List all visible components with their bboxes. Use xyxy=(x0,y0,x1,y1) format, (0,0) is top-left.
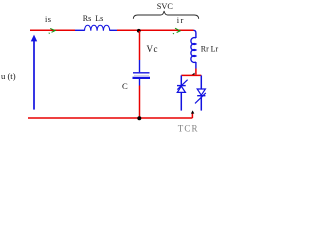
node junction top capacitor xyxy=(137,29,141,33)
thyristor T1 gate xyxy=(177,80,187,90)
wire inductor left lead xyxy=(75,29,85,31)
wire thyristor left top xyxy=(180,75,182,85)
svg-text:RsLs: RsLs xyxy=(83,14,104,23)
capacitor C top plate xyxy=(133,72,150,74)
source arrow u(t) head xyxy=(31,35,37,42)
wire bottom horizontal xyxy=(28,117,192,119)
svg-text:Vc: Vc xyxy=(147,44,159,54)
wire capacitor upper xyxy=(139,31,141,60)
current arrow is xyxy=(50,28,55,32)
svg-text:ir: ir xyxy=(177,15,185,25)
thyristor T2 anode bar xyxy=(197,95,205,97)
wire down to TCR xyxy=(195,69,197,75)
wire thyristor right bottom xyxy=(200,96,202,111)
wire top right corner down xyxy=(194,30,196,38)
thyristor T2 gate xyxy=(195,93,206,104)
wire capacitor lower xyxy=(139,86,141,119)
svg-text:RrLr: RrLr xyxy=(201,44,219,53)
inductor Rs Ls xyxy=(85,25,110,31)
thyristor T2 triangle xyxy=(197,89,205,95)
wire top mid horizontal xyxy=(117,29,194,31)
wire thyristor left bottom xyxy=(180,92,182,110)
svg-text:C: C xyxy=(122,81,128,91)
source arrow u(t) line xyxy=(33,41,35,110)
capacitor C top lead xyxy=(139,60,141,72)
svg-text:TCR: TCR xyxy=(178,123,199,133)
arrowhead into TCR rail xyxy=(191,73,195,76)
current arrow ir xyxy=(175,28,180,32)
wire top left horizontal xyxy=(30,29,75,31)
capacitor C mid faint line xyxy=(134,74,149,76)
capacitor C bottom lead xyxy=(139,79,141,86)
node junction bottom capacitor xyxy=(137,116,141,120)
capacitor C bottom plate xyxy=(133,77,151,79)
wire bottom right upturn xyxy=(191,113,193,118)
svg-text:u (t): u (t) xyxy=(1,71,16,81)
svg-text:SVC: SVC xyxy=(157,2,174,11)
inductor Rr Lr xyxy=(191,38,196,63)
SVC brace xyxy=(133,11,198,19)
wire TCR top rail xyxy=(181,74,201,76)
thyristor T1 cathode bar xyxy=(177,85,186,87)
arrowhead bottom TCR xyxy=(191,110,194,113)
wire inductor Rr bottom lead xyxy=(195,62,197,69)
wire thyristor right top xyxy=(200,75,202,89)
svg-text:is: is xyxy=(45,15,51,24)
thyristor T1 triangle xyxy=(177,86,185,92)
wire inductor right lead xyxy=(110,29,117,31)
